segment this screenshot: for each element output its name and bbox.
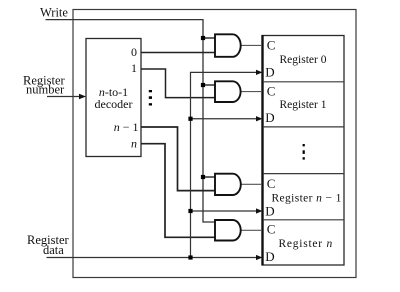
svg-text:C: C [267,176,276,191]
svg-text:Register n: Register n [279,238,333,250]
svg-text:C: C [267,84,276,99]
svg-text:n − 1: n − 1 [114,120,139,134]
svg-text:Write: Write [40,5,68,19]
svg-text:n: n [131,136,137,150]
svg-text:D: D [265,249,274,264]
svg-text:C: C [267,37,276,52]
svg-text:Register n − 1: Register n − 1 [272,193,342,205]
svg-text:decoder: decoder [95,97,133,111]
svg-text:Register 0: Register 0 [280,54,327,66]
svg-text:C: C [267,222,276,237]
svg-text:Register 1: Register 1 [280,99,327,111]
svg-text:number: number [26,83,65,97]
svg-text:1: 1 [131,61,137,75]
svg-text:0: 0 [131,45,137,59]
svg-text:D: D [265,110,274,125]
svg-text:D: D [265,64,274,79]
svg-text:D: D [265,204,274,219]
svg-text:data: data [43,243,64,257]
